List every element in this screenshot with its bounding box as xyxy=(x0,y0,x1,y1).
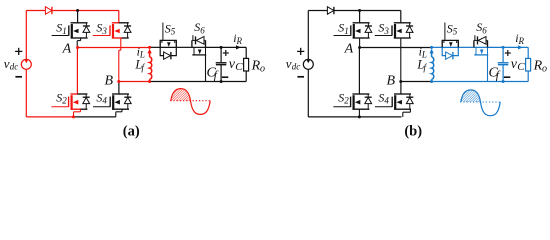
svg-text:o: o xyxy=(260,64,265,75)
svg-text:5: 5 xyxy=(171,27,176,37)
svg-text:(a): (a) xyxy=(123,124,140,140)
svg-text:6: 6 xyxy=(482,25,487,35)
svg-text:dc: dc xyxy=(292,62,301,72)
svg-text:C: C xyxy=(235,61,243,73)
svg-text:R: R xyxy=(236,36,243,46)
svg-text:o: o xyxy=(542,64,547,75)
svg-text:6: 6 xyxy=(200,25,205,35)
svg-text:B: B xyxy=(386,74,395,89)
svg-text:B: B xyxy=(104,74,113,89)
svg-text:2: 2 xyxy=(344,96,349,106)
svg-text:A: A xyxy=(344,42,354,57)
svg-text:(b): (b) xyxy=(404,124,422,140)
svg-text:A: A xyxy=(62,42,72,57)
svg-text:3: 3 xyxy=(383,26,389,36)
svg-text:4: 4 xyxy=(384,96,389,106)
svg-text:3: 3 xyxy=(101,26,107,36)
svg-text:2: 2 xyxy=(62,96,67,106)
svg-text:dc: dc xyxy=(10,62,18,72)
svg-text:5: 5 xyxy=(453,27,458,37)
svg-text:R: R xyxy=(518,36,525,46)
svg-text:4: 4 xyxy=(102,96,107,106)
svg-text:C: C xyxy=(517,61,525,73)
svg-text:1: 1 xyxy=(344,26,349,36)
svg-text:1: 1 xyxy=(62,26,66,36)
